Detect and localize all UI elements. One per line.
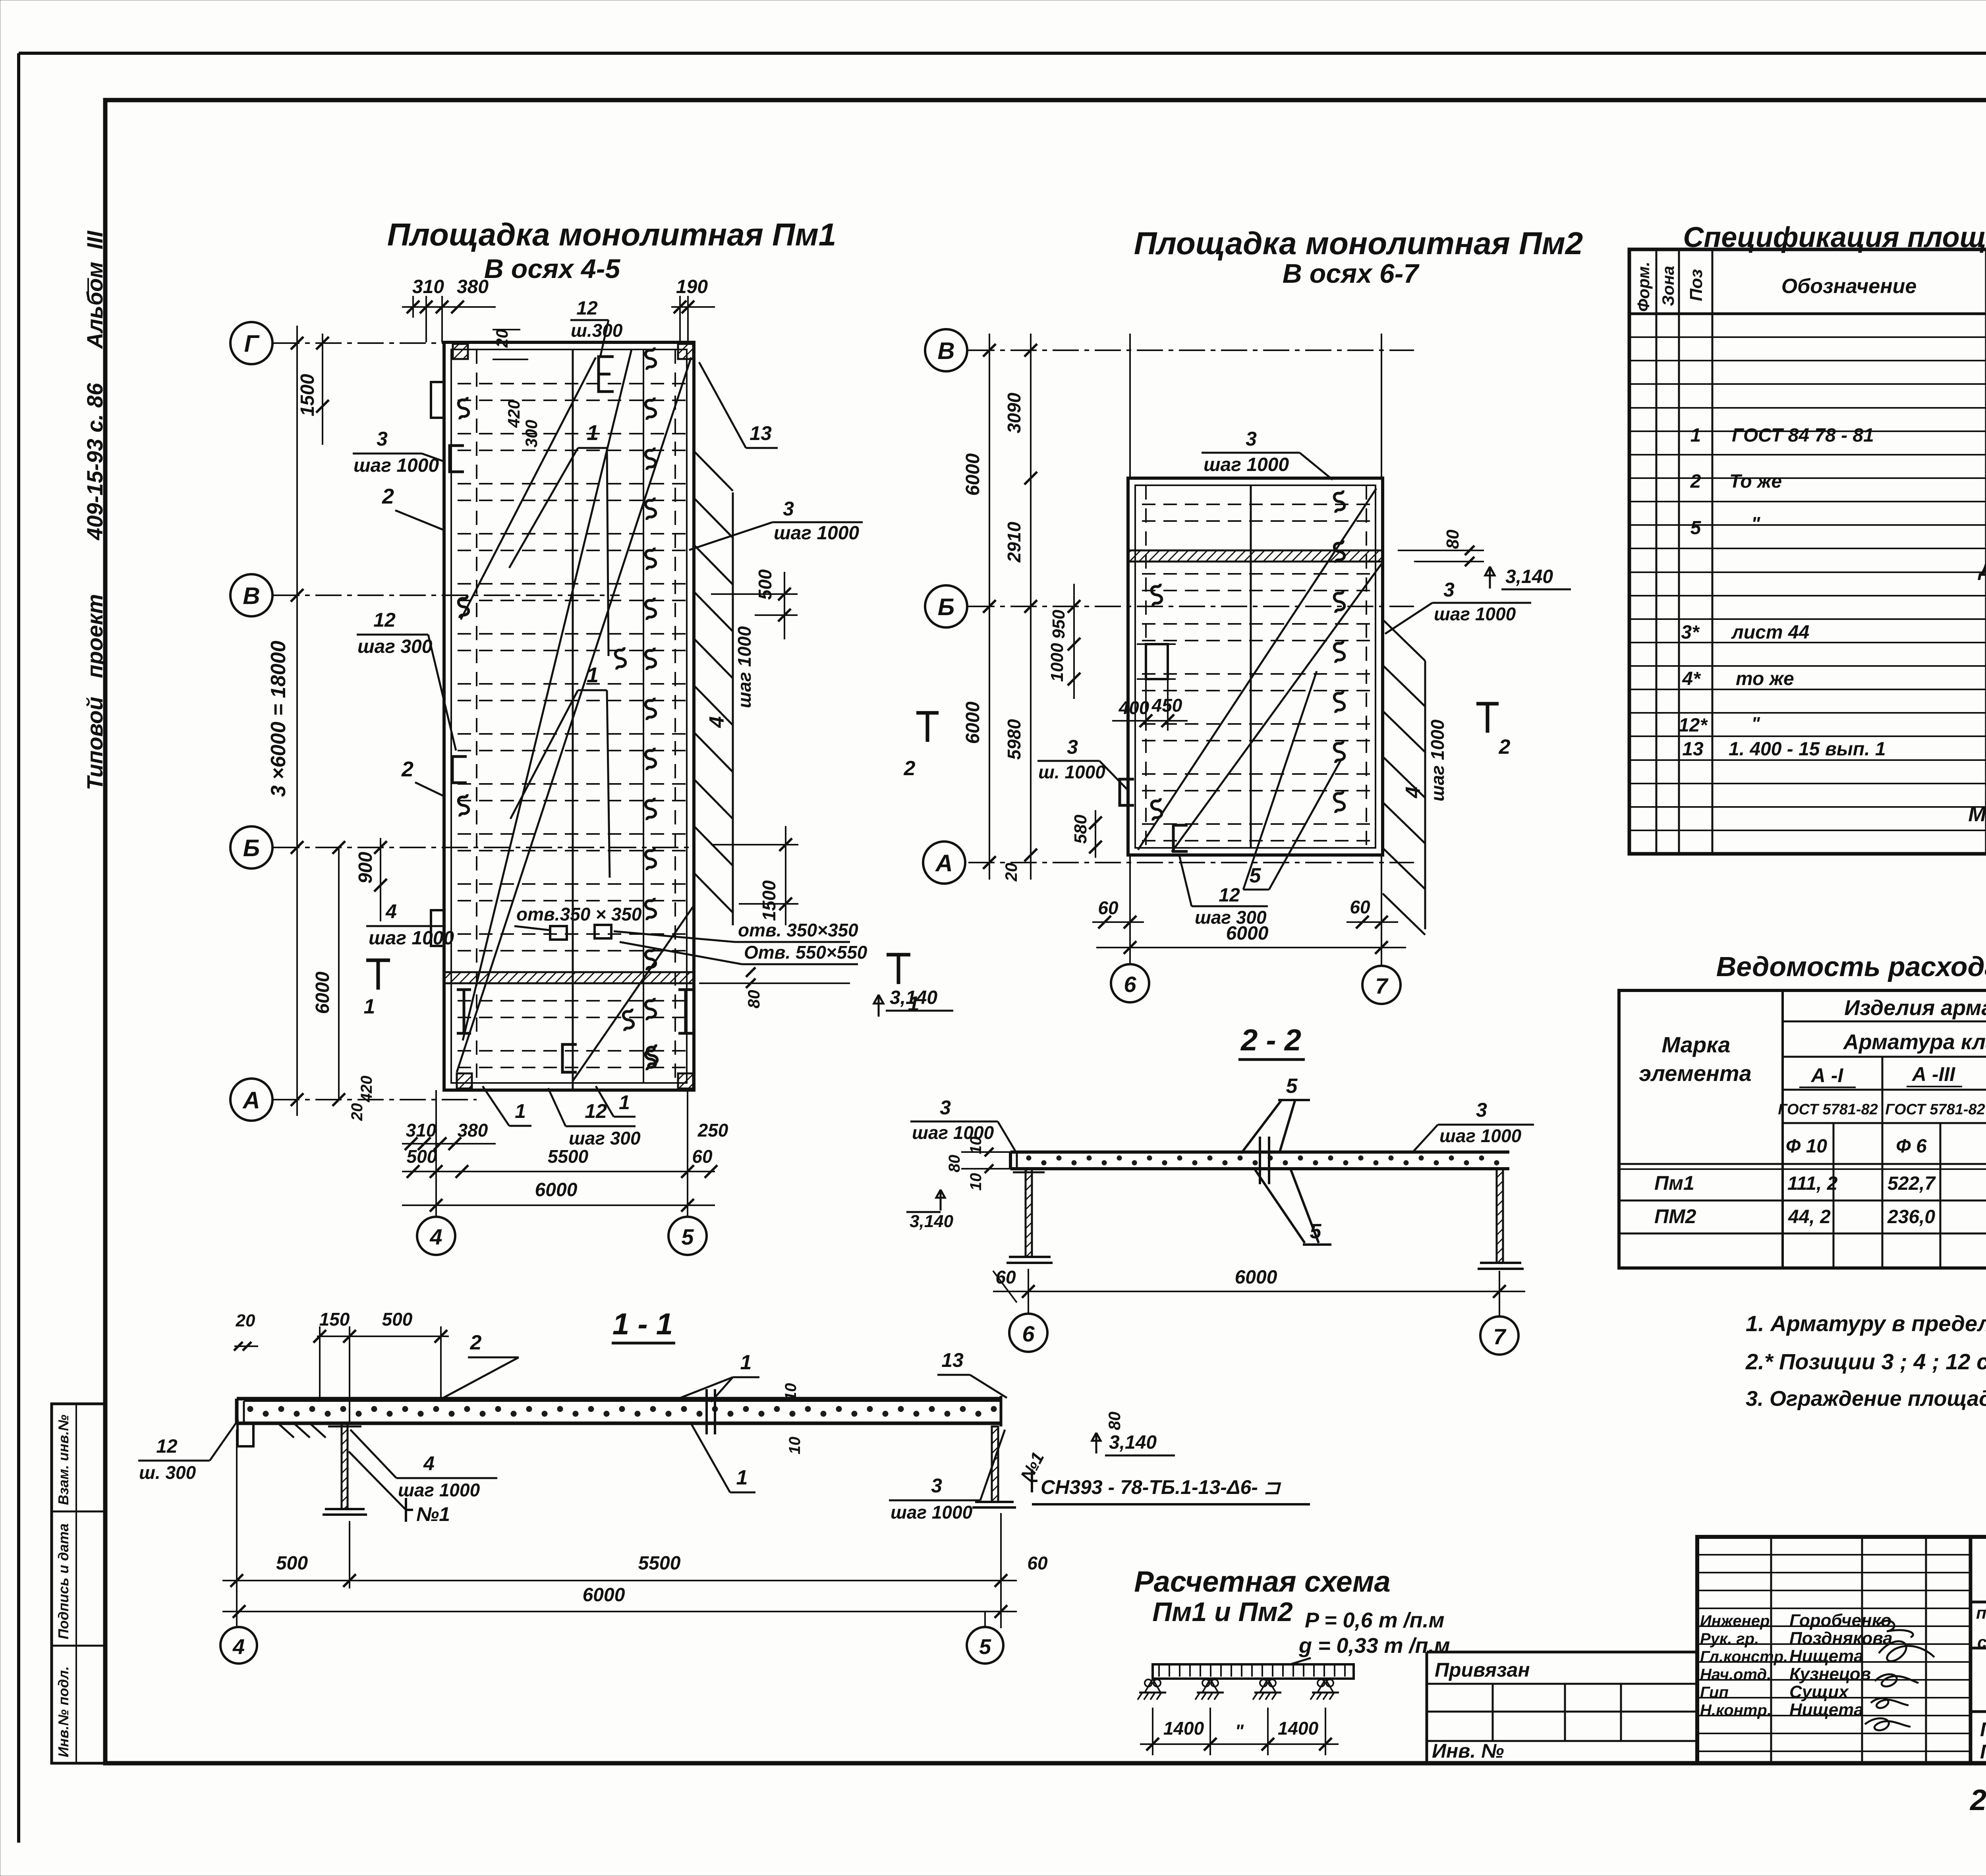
svg-text:ш.300: ш.300 [571, 320, 623, 341]
svg-text:Взам. инв.№: Взам. инв.№ [55, 1415, 71, 1505]
signature scribbles [1865, 1621, 1934, 1730]
svg-text:Горобченко: Горобченко [1789, 1611, 1891, 1630]
svg-text:Площадка монолитная Пм2: Площадка монолитная Пм2 [1134, 226, 1583, 261]
svg-text:4: 4 [429, 1224, 442, 1249]
svg-text:400: 400 [1119, 697, 1149, 718]
support hatch left 1-1 [278, 1423, 294, 1438]
fan hatch zone Pm1 right [694, 451, 733, 925]
elevation 3.140 right of band [874, 995, 883, 1017]
svg-text:60: 60 [1027, 1553, 1048, 1573]
svg-text:Ф 10: Ф 10 [1786, 1136, 1828, 1157]
I-beam left 2-2 [1026, 1169, 1032, 1257]
hooks Pm2 [1334, 490, 1345, 513]
svg-text:12: 12 [373, 609, 396, 631]
svg-text:2910: 2910 [1004, 521, 1024, 563]
axis circle B Pm2 [925, 585, 967, 627]
svg-text:80: 80 [1105, 1412, 1124, 1430]
svg-text:Пм1: Пм1 [1654, 1172, 1694, 1194]
break mark 2-2 [1259, 1137, 1261, 1184]
svg-text:3. Ограждение площадки Пм1: 3. Ограждение площадки Пм1 по оси 5 В ос… [1746, 1387, 1986, 1411]
svg-text:Кузнецов: Кузнецов [1789, 1664, 1871, 1684]
diagonal leader D2 [463, 349, 632, 1040]
svg-text:310: 310 [406, 1120, 437, 1141]
svg-text:300: 300 [522, 420, 541, 448]
svg-text:": " [1751, 513, 1761, 535]
opening rect Pm2 [1146, 644, 1168, 679]
svg-text:3: 3 [1246, 428, 1257, 450]
axis circle V Pm2 [925, 329, 967, 371]
svg-text:Альбом III: Альбом III [82, 230, 107, 349]
section mark 2 left [926, 713, 929, 742]
svg-text:3: 3 [940, 1096, 951, 1119]
svg-text:Площадки монолитные Пм1 и: Площадки монолитные Пм1 и [1980, 1718, 1986, 1741]
svg-text:6000: 6000 [962, 453, 983, 496]
channel mark C top [599, 357, 614, 392]
svg-text:1000: 1000 [1047, 643, 1067, 682]
axis circle 6 Pm2 [1111, 964, 1149, 1002]
svg-text:Материалы: Материалы [1968, 802, 1986, 826]
svg-text:шаг 1000: шаг 1000 [354, 455, 439, 476]
svg-text:производственная база ремстр: производственная база ремстройучастка с [1976, 1604, 1986, 1623]
svg-text:шаг 1000: шаг 1000 [398, 1480, 480, 1500]
slab Pm1 outline [444, 342, 694, 1090]
svg-text:В: В [243, 583, 260, 609]
svg-text:": " [1235, 1721, 1244, 1741]
svg-text:3 ×6000 = 18000: 3 ×6000 = 18000 [267, 641, 290, 797]
svg-text:10: 10 [782, 1383, 800, 1401]
svg-text:В осях 4-5: В осях 4-5 [484, 254, 621, 284]
svg-text:380: 380 [457, 276, 489, 297]
diagonal leader D4 [461, 357, 596, 620]
section 2-2 slab strip [1010, 1150, 1509, 1154]
I-beam plan symbol right [678, 990, 693, 1033]
svg-text:4: 4 [385, 900, 397, 923]
spec table verticals [1656, 249, 1986, 854]
svg-text:6: 6 [1022, 1321, 1035, 1346]
svg-text:Ф 6: Ф 6 [1896, 1136, 1927, 1157]
svg-text:В: В [937, 338, 954, 364]
svg-text:шаг 1000: шаг 1000 [369, 928, 454, 949]
svg-text:1: 1 [587, 421, 599, 445]
diagonals Pm2 [1138, 488, 1376, 850]
svg-text:3,140: 3,140 [1109, 1432, 1157, 1453]
diagonal leader D1 [457, 357, 691, 1072]
axis circle 5 [668, 1217, 707, 1255]
svg-text:ГОСТ 84 78 - 81: ГОСТ 84 78 - 81 [1732, 425, 1874, 446]
svg-text:1400: 1400 [1278, 1718, 1319, 1739]
svg-text:4: 4 [705, 716, 728, 728]
axis circle 4 [417, 1217, 455, 1255]
svg-text:3: 3 [931, 1475, 942, 1497]
svg-text:": " [1751, 713, 1760, 734]
svg-text:900: 900 [355, 852, 376, 884]
svg-text:5: 5 [979, 1635, 991, 1659]
svg-text:80: 80 [1443, 529, 1462, 549]
svg-text:3,140: 3,140 [1505, 566, 1553, 587]
axis circle 7 Pm2 [1362, 966, 1401, 1004]
dim chain 6000 Pm2 [989, 334, 990, 880]
joint hatched band Pm2 [1128, 550, 1383, 562]
svg-text:5500: 5500 [548, 1146, 589, 1167]
svg-text:12: 12 [576, 298, 598, 319]
svg-text:4*: 4* [1682, 668, 1701, 689]
vertical lines Pm2 [1250, 485, 1252, 848]
svg-text:То же: То же [1729, 471, 1782, 492]
svg-text:2: 2 [904, 757, 916, 780]
svg-text:2: 2 [1499, 735, 1511, 759]
svg-text:4: 4 [1402, 786, 1425, 798]
svg-text:Изделия арматурные: Изделия арматурные [1844, 996, 1986, 1020]
axis circle 7 section 2-2 [1480, 1316, 1518, 1355]
svg-text:44, 2: 44, 2 [1788, 1206, 1831, 1228]
axis circle A [230, 1079, 272, 1121]
corner pocket bottom-left [457, 1073, 472, 1089]
SN393 label [1032, 1469, 1037, 1492]
svg-text:7: 7 [1375, 973, 1389, 998]
opening squares in Pm1 [550, 926, 567, 940]
svg-text:1: 1 [736, 1466, 748, 1489]
svg-text:580: 580 [1071, 814, 1090, 844]
svg-text:Площадка монолитная Пм1: Площадка монолитная Пм1 [387, 217, 836, 252]
svg-text:1: 1 [740, 1351, 752, 1374]
svg-text:Зона: Зона [1659, 266, 1677, 306]
svg-text:80: 80 [946, 1155, 963, 1173]
svg-text:13: 13 [941, 1349, 964, 1371]
svg-text:Ведомость расхода стали на: Ведомость расхода стали на один элемент,… [1716, 951, 1986, 982]
svg-text:1400: 1400 [1163, 1718, 1204, 1739]
svg-text:2: 2 [470, 1331, 482, 1354]
svg-text:1: 1 [619, 1091, 630, 1114]
svg-text:шаг 1000: шаг 1000 [1439, 1125, 1522, 1146]
svg-text:420: 420 [504, 400, 523, 428]
svg-text:№1: №1 [416, 1503, 450, 1525]
axis A line Pm2 [968, 862, 1414, 863]
svg-text:шаг 1000: шаг 1000 [734, 626, 755, 708]
svg-text:А: А [242, 1087, 260, 1114]
I-beam right 2-2 [1497, 1169, 1503, 1263]
svg-text:3: 3 [1067, 736, 1078, 758]
svg-text:13: 13 [750, 422, 772, 444]
paper edge left [17, 53, 20, 1843]
svg-text:то же: то же [1736, 668, 1794, 689]
axis B line [273, 847, 695, 848]
channel mark C left [450, 446, 464, 472]
svg-text:500: 500 [407, 1146, 437, 1167]
dim chain 3090 2910 5980 [1030, 334, 1032, 880]
svg-text:А -I: А -I [1810, 1064, 1844, 1087]
section mark 1 left [377, 960, 380, 990]
svg-text:10: 10 [967, 1173, 985, 1191]
axis circle 5 section 1-1 [967, 1627, 1003, 1664]
channel mark C left2 [452, 757, 467, 783]
svg-text:12: 12 [1219, 885, 1240, 906]
svg-text:1. Арматуру в пределах отвер: 1. Арматуру в пределах отверстий вырезат… [1746, 1311, 1986, 1336]
svg-text:1500: 1500 [759, 880, 779, 921]
axis circle G [230, 322, 272, 364]
svg-text:Сущих: Сущих [1789, 1682, 1849, 1702]
svg-text:ш. 300: ш. 300 [139, 1462, 196, 1483]
steel table main verticals [1781, 990, 1784, 1268]
svg-text:1500: 1500 [297, 374, 318, 416]
dim 1500 left [322, 334, 323, 445]
vertical mesh line solid mid [572, 349, 574, 1090]
svg-text:Марка: Марка [1662, 1032, 1731, 1057]
svg-text:1: 1 [1690, 425, 1701, 446]
svg-text:420: 420 [358, 1076, 375, 1103]
svg-text:ПМ2: ПМ2 [1654, 1205, 1696, 1228]
svg-text:409-15-93 с. 86: 409-15-93 с. 86 [82, 383, 107, 540]
channel marks Pm2 [1120, 779, 1134, 805]
steel table sub verticals [1833, 1057, 1986, 1268]
dim 6000 B-A [338, 847, 340, 1100]
svg-text:Нищета: Нищета [1789, 1646, 1864, 1666]
title block right rows [1971, 1601, 1986, 1604]
svg-text:12: 12 [585, 1100, 607, 1122]
svg-text:111, 2: 111, 2 [1787, 1173, 1838, 1194]
svg-text:Типовой проект: Типовой проект [82, 594, 107, 790]
svg-text:P = 0,6 т /п.м: P = 0,6 т /п.м [1305, 1608, 1445, 1632]
svg-text:190: 190 [676, 276, 708, 297]
svg-text:5: 5 [1690, 517, 1702, 538]
svg-text:Рук. гр.: Рук. гр. [1700, 1630, 1759, 1648]
svg-text:3090: 3090 [1004, 392, 1024, 433]
svg-text:Нищета: Нищета [1789, 1700, 1864, 1720]
rebar dashed rows Pm1 [458, 384, 686, 1067]
svg-text:шаг 1000: шаг 1000 [1427, 720, 1448, 802]
svg-text:Б: Б [243, 835, 260, 861]
svg-text:шаг 1000: шаг 1000 [1204, 454, 1289, 475]
svg-text:лист 44: лист 44 [1731, 622, 1809, 643]
svg-text:Подпись и дата: Подпись и дата [55, 1523, 71, 1639]
svg-text:элемента: элемента [1639, 1061, 1751, 1086]
svg-text:3: 3 [1476, 1099, 1487, 1121]
svg-text:А -III: А -III [1911, 1063, 1955, 1085]
svg-text:1 - 1: 1 - 1 [612, 1307, 673, 1341]
svg-text:1. 400 - 15 вып. 1: 1. 400 - 15 вып. 1 [1729, 739, 1886, 760]
vertical rebar line dashed right [674, 349, 676, 1083]
I-beam plan symbol left [457, 990, 471, 1033]
svg-text:12: 12 [156, 1436, 178, 1457]
svg-text:Б: Б [938, 594, 954, 620]
svg-text:отв.350 × 350: отв.350 × 350 [516, 904, 642, 924]
vertical rebar line dashed left [476, 349, 477, 1083]
I-beam 1-1 [342, 1423, 348, 1509]
rebar dots 1-1 [247, 1406, 997, 1417]
right end 1-1 [1000, 1396, 1003, 1426]
svg-text:6000: 6000 [312, 971, 333, 1014]
svg-text:Г: Г [244, 330, 260, 357]
svg-text:Гип: Гип [1700, 1684, 1729, 1701]
section 1-1 slab strip [237, 1397, 1001, 1401]
axis B line Pm2 [968, 606, 1414, 607]
svg-text:20: 20 [348, 1103, 366, 1121]
svg-text:10: 10 [786, 1437, 804, 1455]
svg-text:250: 250 [697, 1120, 728, 1141]
svg-text:Нач.отд.: Нач.отд. [1700, 1666, 1771, 1683]
axis verticals to circles 4 5 [435, 1090, 437, 1217]
support symbols [1145, 1679, 1152, 1687]
fan hatch Pm2 right [1383, 620, 1425, 935]
privyazan table [1427, 1651, 1697, 1654]
svg-text:20: 20 [236, 1311, 255, 1330]
svg-text:236,0: 236,0 [1887, 1206, 1935, 1228]
svg-text:Поз: Поз [1687, 269, 1706, 301]
column axis verticals Pm2 [1129, 334, 1131, 478]
left edge notch upper [431, 382, 444, 418]
svg-text:СН393 - 78-ТБ.1-13-Δ6- ⊐: СН393 - 78-ТБ.1-13-Δ6- ⊐ [1041, 1476, 1281, 1498]
title block sig rows [1697, 1555, 1971, 1751]
svg-text:отв. 350×350: отв. 350×350 [738, 920, 858, 940]
axis circle V [230, 574, 272, 616]
svg-text:5: 5 [681, 1224, 694, 1249]
vertical dim chain 3x6000 [296, 326, 298, 1116]
axis circle B [230, 826, 272, 869]
section mark 1 right [897, 955, 900, 984]
svg-text:ПМ2 В осях 4 - 5 и 6 - 7: ПМ2 В осях 4 - 5 и 6 - 7 [1980, 1741, 1986, 1763]
svg-text:Обозначение: Обозначение [1781, 275, 1917, 298]
svg-text:60: 60 [1350, 897, 1370, 917]
svg-text:3*: 3* [1681, 622, 1700, 643]
svg-text:4: 4 [232, 1635, 245, 1659]
svg-text:шаг 1000: шаг 1000 [774, 523, 859, 544]
svg-text:6000: 6000 [535, 1179, 578, 1200]
axis G line [273, 342, 446, 344]
svg-text:4: 4 [423, 1452, 435, 1475]
svg-text:6000: 6000 [1235, 1267, 1277, 1288]
svg-text:Инв.№ подл.: Инв.№ подл. [55, 1666, 71, 1757]
svg-text:с сейсмичностью 7,8,9 баллов): с сейсмичностью 7,8,9 баллов) [1977, 1633, 1986, 1652]
title block verticals left part [1770, 1537, 1772, 1763]
dim 950 1000 [1073, 584, 1075, 699]
svg-text:2 - 2: 2 - 2 [1240, 1023, 1301, 1057]
axis circle A Pm2 [923, 841, 965, 884]
svg-text:6000: 6000 [583, 1585, 625, 1606]
vertical mesh line solid right [643, 349, 644, 1083]
svg-text:6000: 6000 [962, 701, 983, 744]
svg-text:Н.контр.: Н.контр. [1700, 1702, 1772, 1719]
svg-text:1: 1 [364, 995, 375, 1018]
svg-text:500: 500 [755, 569, 775, 600]
svg-text:1: 1 [908, 992, 920, 1015]
svg-text:20: 20 [493, 329, 511, 348]
svg-text:шаг 1000: шаг 1000 [912, 1122, 994, 1143]
svg-text:Пм1 и Пм2: Пм1 и Пм2 [1152, 1597, 1293, 1627]
dim 900 left [380, 838, 381, 921]
svg-text:2: 2 [1690, 471, 1701, 492]
elevation 3.140 2-2 left [936, 1190, 945, 1210]
section mark 2 right [1486, 704, 1489, 733]
svg-text:13: 13 [1682, 739, 1704, 760]
channel mark C bottom [562, 1044, 577, 1072]
svg-text:25665-03: 25665-03 [1969, 1783, 1986, 1816]
svg-text:Привязан: Привязан [1435, 1659, 1530, 1681]
svg-text:2: 2 [401, 757, 413, 781]
axis V line [273, 594, 620, 596]
corner pocket top-right [678, 344, 693, 359]
svg-text:500: 500 [276, 1553, 308, 1574]
svg-text:Отв. 550×550: Отв. 550×550 [744, 942, 867, 963]
svg-text:Детали: Детали [1978, 557, 1986, 581]
title block outer [1697, 1537, 1986, 1763]
hook marks misc Pm1 [645, 347, 656, 370]
svg-text:3,140: 3,140 [910, 1212, 954, 1231]
svg-text:3: 3 [377, 428, 388, 450]
diagonal leader D3 [573, 905, 694, 1081]
svg-text:5500: 5500 [638, 1553, 681, 1574]
elevation 3.140 Pm2 [1485, 567, 1495, 589]
svg-text:7: 7 [1493, 1324, 1507, 1349]
svg-text:5: 5 [1286, 1075, 1298, 1098]
svg-text:А: А [935, 850, 952, 876]
svg-text:Инв. №: Инв. № [1432, 1740, 1504, 1762]
svg-text:Расчетная схема: Расчетная схема [1134, 1565, 1390, 1598]
axis circle 4 section 1-1 [220, 1627, 257, 1664]
svg-text:6000: 6000 [1226, 923, 1269, 944]
svg-text:2: 2 [382, 484, 394, 508]
corner pocket bottom-right [678, 1073, 693, 1089]
svg-text:шаг 1000: шаг 1000 [1434, 604, 1516, 624]
svg-text:522,7: 522,7 [1887, 1173, 1936, 1194]
svg-text:150: 150 [319, 1309, 350, 1330]
svg-text:Позднякова: Позднякова [1789, 1629, 1893, 1648]
steel table header lines [1783, 1021, 1986, 1023]
svg-text:шаг 300: шаг 300 [569, 1128, 641, 1148]
svg-text:1: 1 [515, 1100, 526, 1122]
break mark 1-1 [705, 1389, 708, 1434]
svg-text:310: 310 [412, 276, 444, 297]
steel table outer [1619, 990, 1986, 1268]
svg-text:380: 380 [458, 1120, 488, 1141]
spec table row lines [1629, 337, 1986, 830]
svg-text:ГОСТ 5781-82: ГОСТ 5781-82 [1778, 1101, 1878, 1118]
svg-text:2.* Позиции 3 ; 4 ; 12 см. В: 2.* Позиции 3 ; 4 ; 12 см. Ведомость дет… [1745, 1349, 1986, 1374]
svg-text:Инженер: Инженер [1700, 1612, 1770, 1630]
spec table outer [1629, 249, 1986, 854]
joint hatched band Pm1 [444, 972, 694, 983]
svg-text:Гл.констр.: Гл.констр. [1700, 1648, 1788, 1666]
svg-text:Арматура класса: Арматура класса [1843, 1030, 1986, 1054]
svg-text:ш. 1000: ш. 1000 [1038, 762, 1105, 782]
left stamp boxes [52, 1404, 105, 1763]
paper edge top [19, 52, 1986, 55]
axis circle 6 section 2-2 [1009, 1314, 1047, 1352]
axis V line Pm2 [968, 349, 1414, 351]
svg-text:60: 60 [1098, 897, 1119, 918]
svg-text:500: 500 [382, 1309, 413, 1330]
svg-text:шаг 300: шаг 300 [357, 636, 433, 657]
axis A line [273, 1099, 477, 1100]
left edge notch lower [431, 910, 444, 946]
svg-text:950: 950 [1049, 610, 1068, 639]
svg-text:20: 20 [1002, 863, 1020, 882]
svg-text:5980: 5980 [1004, 719, 1024, 760]
svg-text:шаг 1000: шаг 1000 [891, 1502, 973, 1523]
svg-text:В осях 6-7: В осях 6-7 [1283, 259, 1420, 289]
left downturn 1-1 [238, 1423, 253, 1446]
svg-text:3: 3 [1443, 579, 1455, 601]
beam with distributed load [1153, 1664, 1354, 1679]
corner pocket top-left [453, 344, 468, 359]
svg-text:ГОСТ 5781-82: ГОСТ 5781-82 [1885, 1101, 1985, 1118]
svg-text:80: 80 [744, 990, 763, 1009]
svg-text:6: 6 [1124, 972, 1136, 997]
svg-text:3: 3 [783, 498, 794, 520]
svg-text:1: 1 [587, 663, 599, 687]
svg-text:450: 450 [1151, 695, 1182, 716]
slab Pm2 outline [1128, 478, 1383, 855]
svg-text:12*: 12* [1679, 715, 1708, 736]
svg-text:60: 60 [692, 1146, 713, 1167]
